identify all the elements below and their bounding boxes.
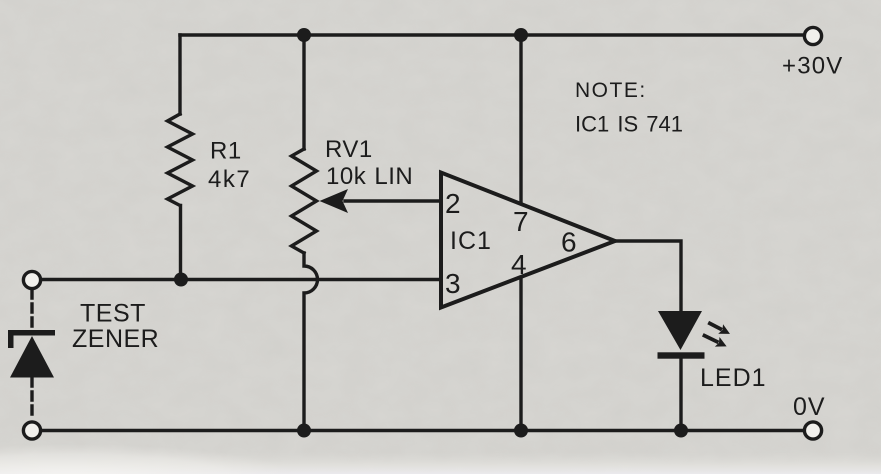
wire left horizontal (test terminal to pin 3)	[41, 278, 441, 281]
zener diode cathode bar	[8, 330, 55, 348]
LED1 cathode bar	[658, 352, 705, 358]
svg-text:10k LIN: 10k LIN	[326, 163, 413, 190]
wire R1 bottom lead	[179, 206, 182, 280]
svg-text:RV1: RV1	[325, 136, 373, 163]
wire IC1 output pin 6	[615, 241, 681, 311]
junction node pin7 top rail	[514, 28, 528, 42]
page edge highlight bottom-left	[0, 444, 300, 474]
resistor R1	[168, 114, 193, 206]
svg-text:6: 6	[561, 227, 577, 258]
terminal test left top	[23, 271, 40, 288]
wire RV1 top lead	[302, 35, 305, 149]
junction node pin4 bottom rail	[514, 424, 528, 438]
wire top rail	[180, 33, 802, 36]
wire IC1 pin 2 to RV1 wiper	[345, 199, 441, 202]
terminal test left bottom	[23, 422, 40, 439]
wire R1 top lead	[178, 35, 181, 114]
junction node LED1 bottom rail	[674, 424, 688, 438]
wire test zener dashed top lead	[30, 290, 33, 330]
terminal 0V right	[804, 422, 821, 439]
terminal +30V	[804, 27, 821, 44]
svg-text:+30V: +30V	[782, 53, 844, 80]
svg-text:NOTE:: NOTE:	[575, 79, 647, 102]
svg-text:TEST: TEST	[80, 300, 146, 328]
wire test zener dashed bottom lead	[30, 378, 33, 420]
zener diode anode triangle	[10, 336, 54, 378]
svg-text:4: 4	[511, 249, 527, 280]
svg-text:0V: 0V	[793, 393, 826, 421]
wire IC1 pin 4 supply lead (bottom)	[519, 278, 522, 431]
svg-text:2: 2	[445, 188, 461, 219]
wire IC1 pin 7 supply lead (top)	[519, 35, 522, 204]
svg-text:IC1 IS 741: IC1 IS 741	[575, 112, 683, 137]
wire LED1 cathode lead	[679, 358, 682, 431]
svg-text:3: 3	[445, 268, 461, 299]
junction node RV1 top rail	[297, 28, 311, 42]
svg-text:4k7: 4k7	[208, 166, 251, 193]
junction node RV1 bottom rail	[297, 424, 311, 438]
svg-text:IC1: IC1	[450, 227, 492, 255]
wire RV1 bottom lead with hop over horizontal wire	[304, 253, 318, 431]
LED1 anode triangle	[658, 311, 702, 350]
svg-text:ZENER: ZENER	[72, 325, 159, 353]
wire bottom rail 0V	[41, 429, 802, 432]
svg-text:7: 7	[513, 206, 529, 237]
svg-text:LED1: LED1	[700, 364, 767, 392]
svg-text:R1: R1	[210, 138, 242, 165]
LED1 light arrow lower	[700, 330, 728, 351]
potentiometer RV1 track	[292, 149, 317, 253]
junction node R1/left wire	[174, 273, 188, 287]
op-amp IC1	[441, 173, 615, 308]
LED1 light arrow upper	[706, 318, 733, 339]
potentiometer RV1 wiper arrow	[320, 189, 349, 213]
